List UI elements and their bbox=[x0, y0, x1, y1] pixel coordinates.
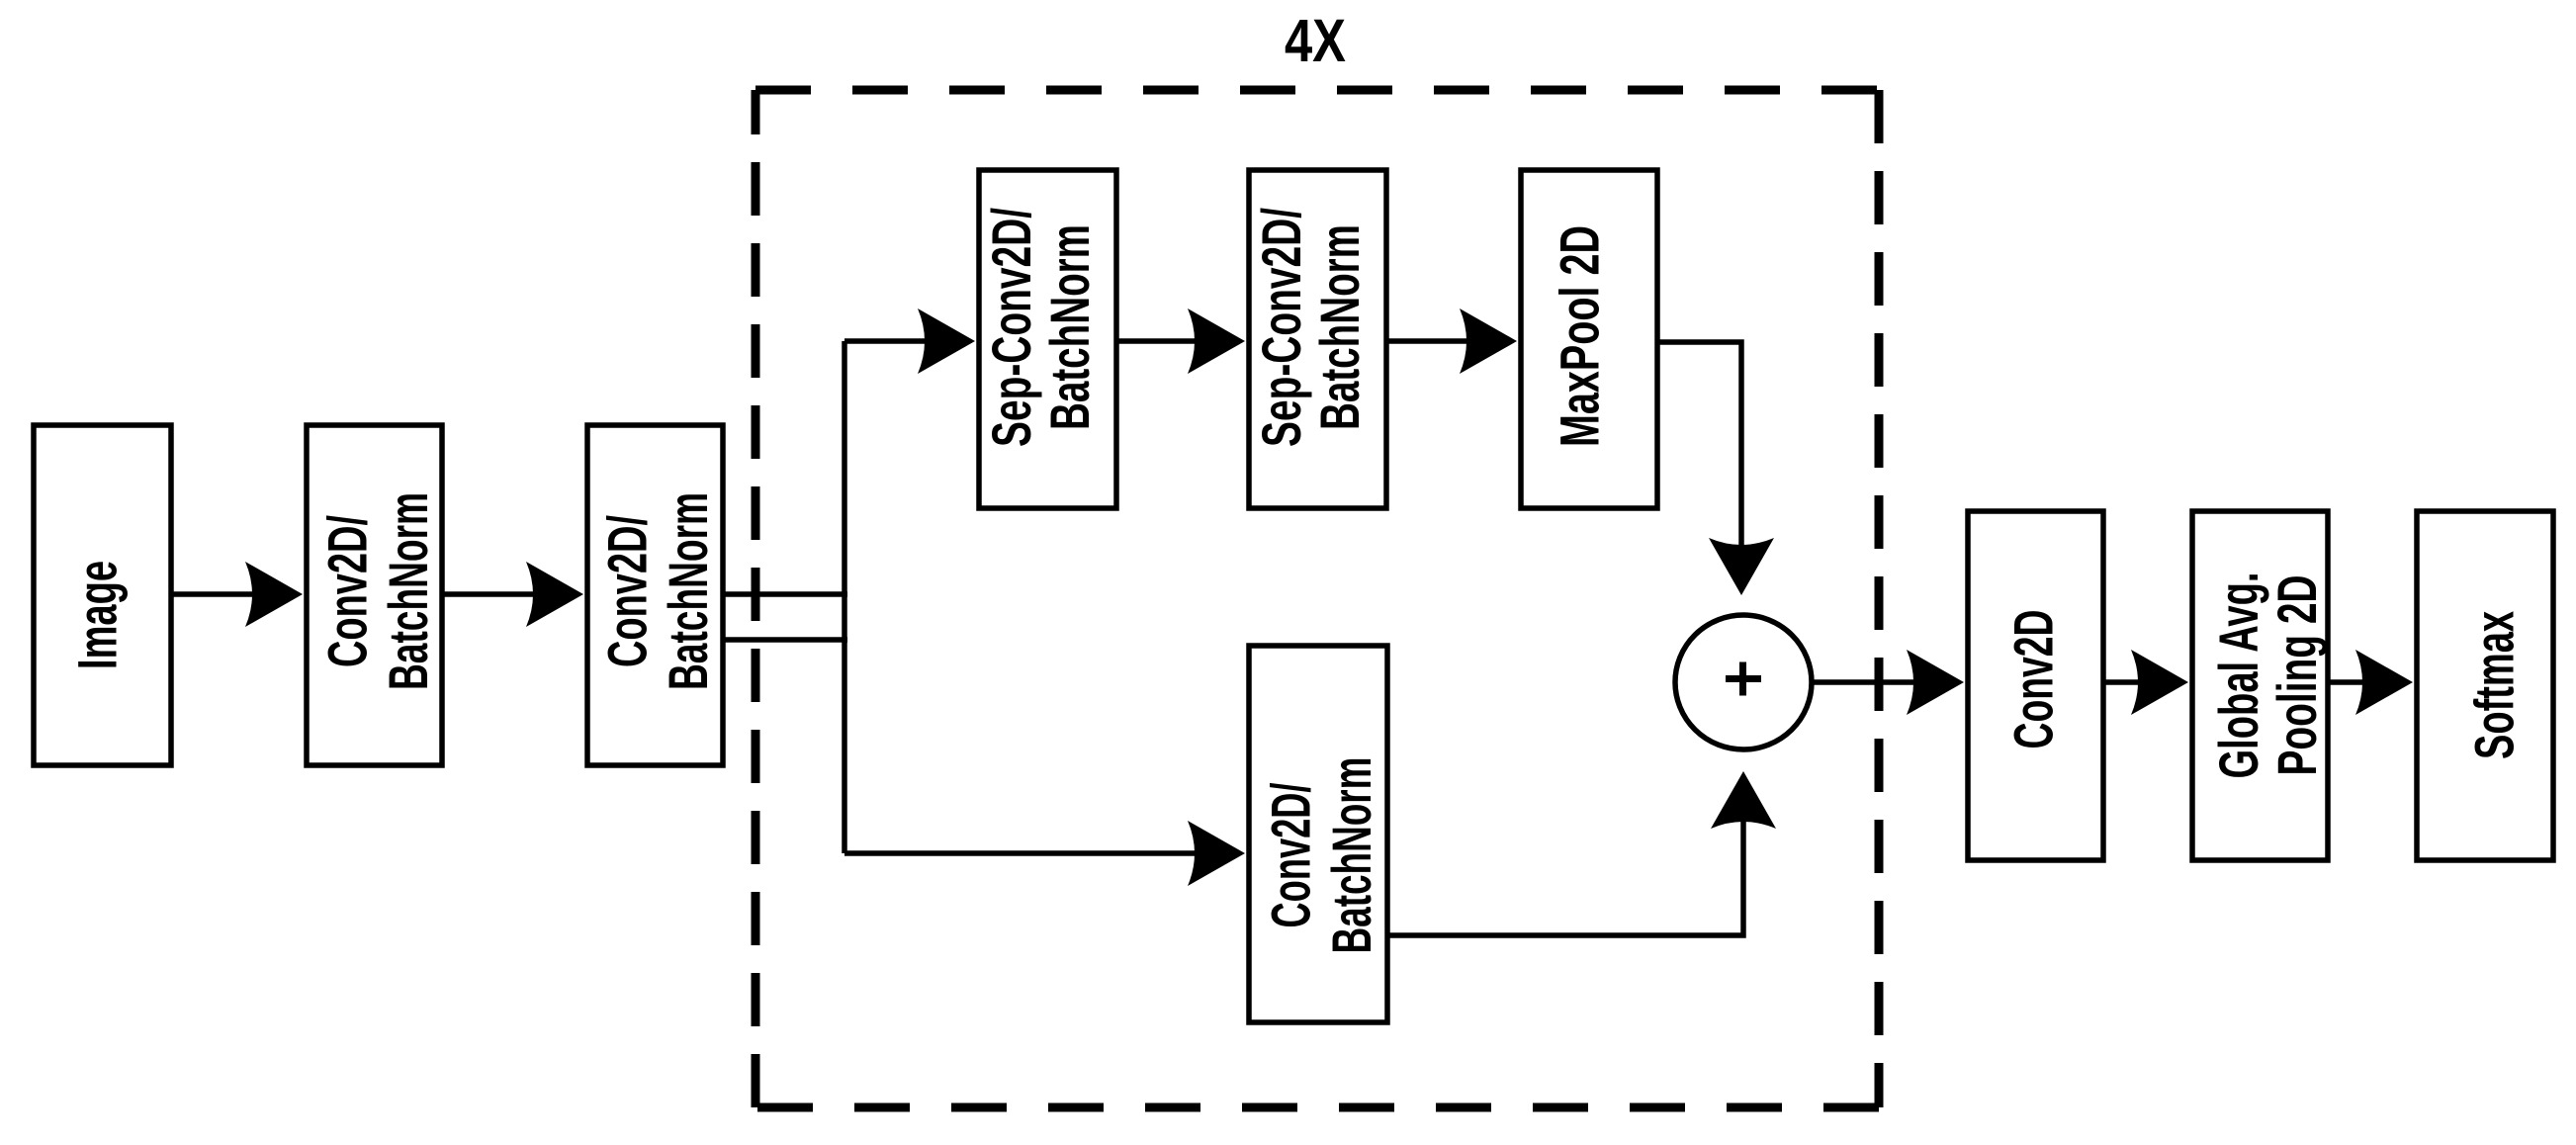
arrowhead into MaxPool 2D bbox=[1460, 308, 1517, 374]
arrowhead into Sep-Conv2D 1 bbox=[918, 308, 975, 374]
dashed repeat-block box 4X : left edge bbox=[752, 90, 760, 1107]
dashed repeat-block box 4X : right edge bbox=[1875, 90, 1884, 1107]
box Conv2D/BatchNorm 1 bbox=[307, 425, 442, 765]
svg-text:Conv2D/BatchNorm: Conv2D/BatchNorm bbox=[317, 492, 440, 690]
svg-text:Sep-Conv2D/BatchNorm: Sep-Conv2D/BatchNorm bbox=[982, 208, 1102, 447]
wire MaxPool 2D output down to summation bbox=[1657, 342, 1741, 587]
wire junction vertical (345 to 863) bbox=[842, 341, 847, 853]
wire summation to Conv2D bbox=[1812, 679, 1956, 685]
wire Conv2D to Global Avg Pooling bbox=[2105, 679, 2180, 685]
svg-text:MaxPool 2D: MaxPool 2D bbox=[1550, 225, 1611, 447]
svg-text:Image: Image bbox=[67, 561, 129, 669]
wire upper branch: B2 exit to junction vertical bbox=[723, 591, 847, 597]
box Conv2D bbox=[1968, 511, 2103, 860]
arrowhead into Softmax bbox=[2355, 650, 2413, 715]
svg-text:Softmax: Softmax bbox=[2464, 611, 2526, 759]
svg-text:Conv2D/BatchNorm: Conv2D/BatchNorm bbox=[1261, 757, 1383, 954]
box Sep-Conv2D/BatchNorm 2 bbox=[1249, 170, 1386, 508]
box Conv2D/BatchNorm 3 (shortcut branch) bbox=[1249, 646, 1387, 1022]
box Conv2D/BatchNorm 2 bbox=[587, 425, 723, 765]
arrowhead into Conv2D bbox=[1907, 650, 1964, 715]
wire Global Avg Pooling to Softmax bbox=[2329, 679, 2405, 685]
svg-text:Conv2D/BatchNorm: Conv2D/BatchNorm bbox=[597, 492, 720, 690]
svg-text:Conv2D: Conv2D bbox=[2003, 610, 2065, 749]
box Global Avg. Pooling 2D bbox=[2192, 511, 2328, 860]
wire Sep-Conv2D 2 to MaxPool 2D bbox=[1386, 338, 1509, 344]
wire Conv2D/BatchNorm 3 output up to summation bbox=[1389, 779, 1743, 935]
dashed repeat-block box 4X : bottom edge bbox=[755, 1103, 1879, 1112]
arrowhead into Global Avg Pooling bbox=[2131, 650, 2188, 715]
wire Sep-Conv2D 1 to Sep-Conv2D 2 bbox=[1117, 338, 1237, 344]
wire lower branch: B2 exit to junction vertical bbox=[723, 637, 847, 643]
summation node circle bbox=[1675, 615, 1812, 749]
arrowhead into Conv2D/BatchNorm 3 bbox=[1188, 821, 1245, 886]
wire top branch horizontal to Sep-Conv2D 1 bbox=[844, 338, 967, 344]
arrowhead up into summation node bbox=[1711, 771, 1776, 829]
dashed repeat-block box 4X : top edge bbox=[755, 86, 1879, 95]
arrowhead into Conv2D/BatchNorm 1 bbox=[245, 562, 303, 627]
box MaxPool 2D bbox=[1521, 170, 1657, 508]
wire Conv2D/BatchNorm 1 to Conv2D/BatchNorm 2 bbox=[444, 591, 576, 597]
box Image bbox=[34, 425, 171, 765]
summation plus sign bbox=[1726, 662, 1761, 696]
wire bottom branch horizontal to Conv2D/BatchNorm 3 bbox=[844, 850, 1237, 856]
svg-text:Sep-Conv2D/BatchNorm: Sep-Conv2D/BatchNorm bbox=[1252, 208, 1372, 447]
arrowhead into Sep-Conv2D 2 bbox=[1188, 308, 1245, 374]
svg-text:Global Avg.Pooling 2D: Global Avg.Pooling 2D bbox=[2209, 572, 2329, 779]
arrowhead down into summation node bbox=[1709, 538, 1774, 595]
box Softmax bbox=[2417, 511, 2553, 860]
svg-text:4X: 4X bbox=[1285, 7, 1346, 74]
wire Image to Conv2D/BatchNorm 1 bbox=[173, 591, 295, 597]
arrowhead into Conv2D/BatchNorm 2 bbox=[526, 562, 583, 627]
box Sep-Conv2D/BatchNorm 1 bbox=[979, 170, 1116, 508]
